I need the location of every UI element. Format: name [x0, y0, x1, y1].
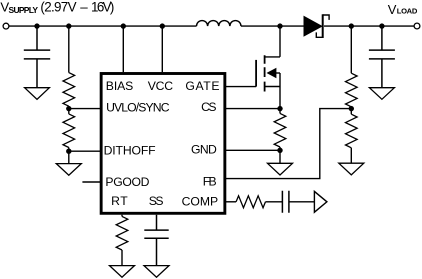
- svg-text:CS: CS: [201, 100, 216, 114]
- svg-text:COMP: COMP: [182, 194, 219, 208]
- svg-text:16V): 16V): [91, 0, 114, 15]
- svg-text:–: –: [80, 0, 88, 15]
- svg-text:PGOOD: PGOOD: [105, 175, 149, 189]
- svg-text:FB: FB: [203, 175, 217, 189]
- svg-text:RT: RT: [111, 194, 128, 208]
- svg-text:UVLO/SYNC: UVLO/SYNC: [106, 101, 170, 115]
- svg-text:(2.97V: (2.97V: [40, 0, 76, 15]
- svg-text:DITHOFF: DITHOFF: [104, 143, 156, 157]
- svg-text:BIAS: BIAS: [106, 79, 134, 93]
- svg-text:SUPPLY: SUPPLY: [9, 5, 39, 15]
- svg-text:LOAD: LOAD: [397, 7, 418, 16]
- svg-text:GND: GND: [191, 142, 217, 156]
- svg-text:GATE: GATE: [185, 79, 219, 93]
- svg-text:SS: SS: [149, 194, 164, 208]
- svg-text:V: V: [388, 2, 397, 17]
- svg-text:VCC: VCC: [148, 79, 173, 93]
